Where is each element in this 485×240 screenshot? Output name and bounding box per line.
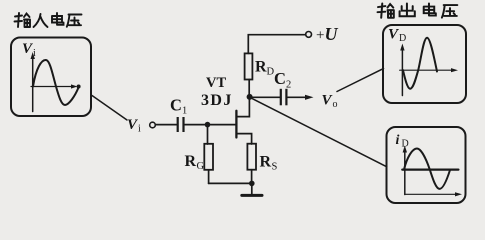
+U terminal circle <box>306 32 312 38</box>
label RS <box>260 154 278 173</box>
resistor RD <box>245 53 253 79</box>
svg-text:U: U <box>325 24 339 44</box>
gate wire C1 to VT <box>185 124 236 126</box>
label iD in box <box>396 133 409 150</box>
svg-text:R: R <box>255 59 267 76</box>
input graph horizontal axis <box>31 86 73 88</box>
svg-text:C: C <box>274 69 286 88</box>
label RD <box>255 59 275 78</box>
transistor VT (JFET) channel bar <box>235 111 237 138</box>
drain lead <box>236 97 249 117</box>
出 <box>400 4 415 17</box>
svg-text:i: i <box>396 133 400 148</box>
ground junction node <box>249 181 255 187</box>
输 <box>15 13 31 27</box>
label 输入电压 (input voltage heading) <box>15 13 82 27</box>
svg-text:i: i <box>138 124 141 135</box>
pointer line Vo to VD box <box>337 69 384 92</box>
svg-text:VT: VT <box>206 75 226 91</box>
capacitor C2 <box>280 89 288 106</box>
label RG <box>185 153 205 172</box>
电 <box>424 4 436 16</box>
svg-text:S: S <box>272 162 278 173</box>
wire RD bottom to drain node <box>248 80 250 98</box>
wire RG to bottom rail <box>208 170 210 184</box>
input waveform box <box>11 38 91 117</box>
label Vi at input terminal <box>127 117 141 135</box>
gate junction node <box>205 122 211 128</box>
label Vo <box>322 93 338 111</box>
resistor RS <box>247 144 256 170</box>
svg-text:R: R <box>260 154 272 171</box>
VD sine wave (inverted) <box>403 38 437 89</box>
bottom rail wire <box>209 182 252 184</box>
label C2 <box>274 69 291 91</box>
wire RD top to +U rail <box>248 35 305 54</box>
input graph vertical axis <box>32 57 34 112</box>
svg-text:2: 2 <box>286 80 291 91</box>
iD DC level line <box>402 169 458 171</box>
svg-text:D: D <box>399 33 406 44</box>
output arrow wire <box>288 96 306 98</box>
svg-text:G: G <box>197 161 205 172</box>
wire terminal to C1 <box>156 124 177 126</box>
drain node dot <box>247 94 253 100</box>
label +U <box>316 24 339 44</box>
iD graph horizontal axis <box>405 193 456 195</box>
wire drain node to C2 <box>250 96 280 98</box>
压 <box>67 15 82 27</box>
svg-text:1: 1 <box>182 106 187 117</box>
svg-text:3DJ: 3DJ <box>201 92 233 109</box>
label VD in box <box>388 27 406 45</box>
VD graph horizontal axis <box>400 69 452 71</box>
source lead <box>236 134 251 144</box>
input sine wave <box>33 60 79 105</box>
iD waveform box <box>387 127 466 203</box>
输 <box>378 4 394 18</box>
label Vi in box <box>22 41 36 59</box>
ground <box>251 183 253 194</box>
svg-text:o: o <box>333 99 338 110</box>
label C1 <box>170 96 187 117</box>
入 <box>34 14 48 27</box>
label 输出电压 (output voltage heading) <box>378 4 458 18</box>
output VD waveform box <box>383 25 466 103</box>
label 3DJ <box>201 92 233 109</box>
wire node to RG <box>207 125 209 144</box>
svg-text:C: C <box>170 96 182 115</box>
capacitor C1 <box>177 117 185 132</box>
pointer line drain node to iD box <box>252 99 387 167</box>
pointer line from input box to Vi terminal <box>92 96 127 121</box>
label VT <box>206 75 226 91</box>
resistor RG <box>204 144 213 170</box>
svg-text:+: + <box>316 28 324 44</box>
电 <box>52 13 64 25</box>
iD sine wave <box>404 148 450 188</box>
input terminal circle <box>150 122 156 128</box>
iD graph vertical axis <box>404 150 406 195</box>
压 <box>442 5 457 18</box>
VD graph vertical axis <box>401 48 403 96</box>
svg-text:R: R <box>185 153 197 170</box>
wire RS to bottom rail <box>251 170 253 184</box>
